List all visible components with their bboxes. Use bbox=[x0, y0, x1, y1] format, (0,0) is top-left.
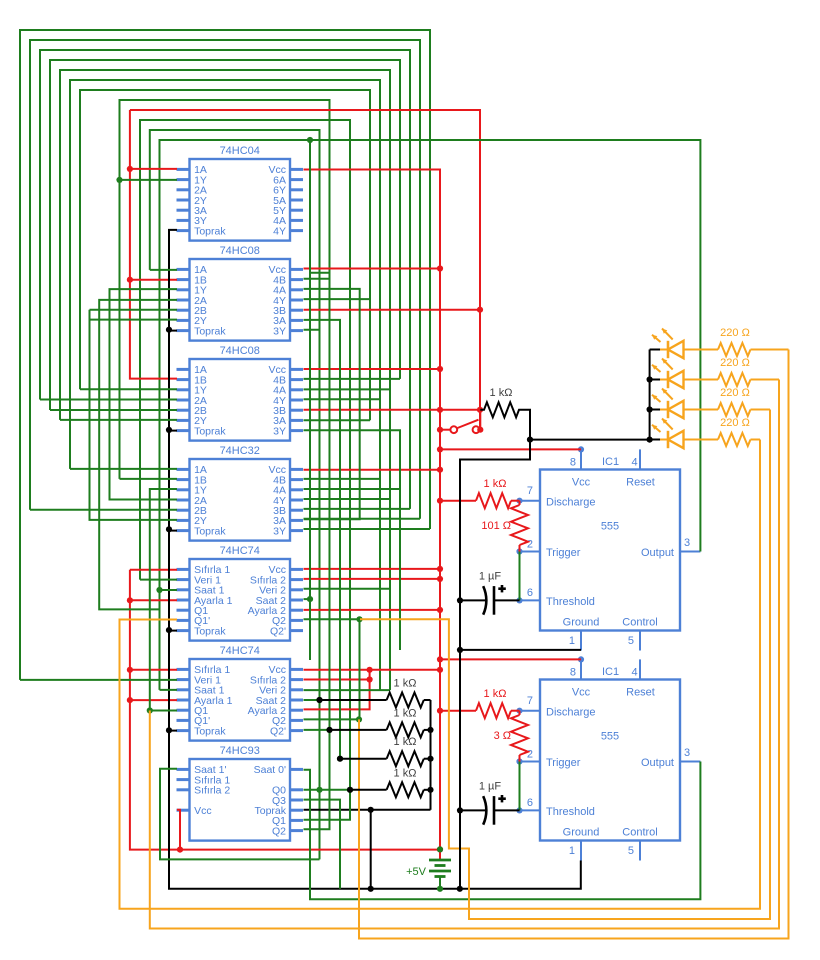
capacitor C IC2 1 uF bbox=[460, 809, 486, 811]
resistor 220 Ohm R4 bbox=[718, 433, 751, 446]
wire red 3B-08a bbox=[304, 309, 481, 311]
wire black x=460 lower bbox=[459, 600, 461, 888]
wire nest8 (y=100) bbox=[120, 100, 330, 479]
svg-text:2: 2 bbox=[527, 749, 533, 761]
wire 4B-08b row bbox=[304, 378, 401, 380]
svg-text:Vcc: Vcc bbox=[572, 687, 591, 699]
wire nest-red (y=110) switch net bbox=[130, 110, 480, 430]
svg-text:555: 555 bbox=[601, 521, 619, 533]
wire Saat1'-93 loop bbox=[160, 769, 320, 860]
svg-text:Vcc: Vcc bbox=[194, 805, 212, 817]
svg-text:74HC32: 74HC32 bbox=[220, 445, 260, 457]
svg-text:Toprak: Toprak bbox=[194, 725, 226, 737]
svg-text:Q2: Q2 bbox=[272, 825, 286, 837]
op-amp/timer IC1 555 (top) bbox=[540, 470, 680, 631]
svg-text:2: 2 bbox=[527, 539, 533, 551]
svg-text:1: 1 bbox=[569, 635, 575, 647]
wire nest2 (y=40) bbox=[30, 40, 420, 519]
wire 4A-08a to 2B-32 bbox=[304, 289, 360, 519]
svg-text:Ground: Ground bbox=[563, 617, 600, 629]
wire red 1A-74HC04 bbox=[130, 168, 177, 170]
svg-text:74HC08: 74HC08 bbox=[220, 245, 260, 257]
wire red Vcc-08b bbox=[304, 368, 441, 370]
wire red Vcc-74a bbox=[304, 568, 441, 570]
svg-text:Discharge: Discharge bbox=[546, 706, 596, 718]
wire 3A-32 row bbox=[304, 518, 421, 520]
svg-text:4Y: 4Y bbox=[273, 225, 286, 237]
svg-text:Toprak: Toprak bbox=[194, 325, 226, 337]
resistor 1 kOhm RN1 bbox=[320, 699, 387, 701]
svg-text:101 Ω: 101 Ω bbox=[481, 520, 511, 532]
wire 3A-08a to x=340 bbox=[304, 320, 341, 759]
svg-text:1 kΩ: 1 kΩ bbox=[394, 767, 417, 779]
wire 2Y-08b row bbox=[99, 419, 177, 421]
wire red Sifirla1-74b bbox=[130, 669, 177, 671]
svg-text:3Y: 3Y bbox=[273, 425, 286, 437]
svg-text:Saat 0': Saat 0' bbox=[254, 764, 286, 776]
svg-text:1 µF: 1 µF bbox=[479, 781, 502, 793]
timer IC1 555 (bottom) bbox=[540, 680, 680, 841]
wire Q1-93 row to x=350 bbox=[304, 790, 351, 820]
wire nest4 (y=60) bbox=[50, 60, 400, 410]
wire nest11 (y=140) clock net bbox=[160, 140, 701, 690]
svg-text:Control: Control bbox=[622, 827, 657, 839]
svg-text:Toprak: Toprak bbox=[194, 625, 226, 637]
wire 4A-32 row bbox=[304, 488, 401, 490]
wire Saat1-74a row bbox=[160, 589, 178, 591]
wire nest10 (y=130) bbox=[150, 130, 320, 859]
svg-text:74HC93: 74HC93 bbox=[220, 745, 260, 757]
wire green trigger-threshold IC2 bbox=[519, 762, 521, 811]
wire 1Y-08b row bbox=[80, 388, 177, 390]
wire red Vcc-08a bbox=[304, 268, 441, 270]
svg-text:74HC74: 74HC74 bbox=[220, 545, 260, 557]
wire Q2-74b row bbox=[304, 718, 360, 720]
wire red pin8 IC2 bbox=[440, 658, 581, 660]
svg-text:3Y: 3Y bbox=[273, 325, 286, 337]
wire red Ayarla2-74a bbox=[304, 609, 441, 611]
wire 1Y-04 row bbox=[120, 179, 178, 181]
resistor 1 kOhm red IC1 bbox=[476, 493, 511, 508]
wire 3Y-08a row bbox=[304, 329, 321, 331]
wire 4B-32 row bbox=[304, 478, 381, 480]
wire red Ayarla1-74a bbox=[130, 599, 177, 601]
svg-text:Trigger: Trigger bbox=[546, 547, 581, 559]
svg-text:74HC08: 74HC08 bbox=[220, 345, 260, 357]
wire 4Y-08a row bbox=[304, 298, 371, 300]
svg-text:Reset: Reset bbox=[626, 687, 655, 699]
svg-text:3: 3 bbox=[684, 537, 690, 549]
wire red Vcc-32 bbox=[304, 469, 441, 471]
wire ground stub Toprak IC4 bbox=[169, 530, 177, 532]
wire black x=370.7 drop bbox=[370, 810, 372, 889]
svg-text:5: 5 bbox=[628, 845, 634, 857]
svg-text:3: 3 bbox=[684, 747, 690, 759]
wire Veri1-74a row bbox=[140, 579, 177, 581]
wire red Vcc-74b bbox=[304, 669, 441, 671]
svg-text:Control: Control bbox=[622, 617, 657, 629]
wire nest3 (y=50) bbox=[40, 50, 410, 509]
wire ground trunk bbox=[169, 230, 581, 889]
battery +5V bbox=[439, 849, 441, 860]
wire red Ayarla1-74b bbox=[130, 699, 177, 701]
wire green trigger-threshold IC1 bbox=[519, 552, 521, 601]
IC U6 74HC74 bbox=[190, 659, 291, 741]
svg-text:1 kΩ: 1 kΩ bbox=[394, 707, 417, 719]
svg-text:Vcc: Vcc bbox=[572, 477, 591, 489]
wire orange Q1-74b to LED2 bbox=[150, 380, 779, 929]
wire x=310 lower (Saat0' loop) bbox=[304, 762, 701, 900]
svg-text:1 µF: 1 µF bbox=[479, 571, 502, 583]
IC U3 74HC08 bbox=[190, 359, 291, 441]
svg-text:IC1: IC1 bbox=[602, 666, 619, 678]
svg-text:555: 555 bbox=[601, 731, 619, 743]
LED D2 bbox=[650, 379, 660, 381]
wire black LED rail row bbox=[530, 439, 650, 441]
wire 2B-32 row bbox=[30, 509, 177, 511]
wire 2A-08b row bbox=[110, 399, 178, 401]
wire red pin8 IC1 bbox=[440, 448, 581, 450]
wire Saat2-74b row bbox=[304, 699, 320, 701]
wire red bus to switch bbox=[440, 429, 450, 431]
resistor 3 Ω red IC2 bbox=[511, 715, 528, 755]
wire Q1-74b row bbox=[150, 710, 177, 712]
svg-text:6: 6 bbox=[527, 587, 533, 599]
wire Veri1-74b row bbox=[20, 679, 177, 681]
svg-text:220 Ω: 220 Ω bbox=[720, 417, 750, 429]
IC U4 74HC32 bbox=[190, 459, 291, 541]
wire 2Y-08b row2 bbox=[60, 419, 99, 421]
wire black resistor rail x=430.5 bbox=[430, 700, 432, 810]
wire orange Q2-74a to LED3 bbox=[360, 410, 770, 920]
svg-text:Threshold: Threshold bbox=[546, 596, 595, 608]
wire 2B-08a row bbox=[90, 309, 178, 311]
wire orange Q2-74b to LED1 bbox=[359, 350, 789, 939]
svg-text:Toprak: Toprak bbox=[194, 225, 226, 237]
svg-text:4: 4 bbox=[631, 667, 637, 679]
wire Veri2-74b row bbox=[304, 689, 391, 691]
IC U2 74HC08 bbox=[190, 259, 291, 341]
wire nest6 (y=80) bbox=[70, 80, 380, 690]
svg-text:1: 1 bbox=[569, 845, 575, 857]
svg-text:1 kΩ: 1 kΩ bbox=[484, 478, 507, 490]
wire red 1B-08a bbox=[130, 279, 177, 281]
svg-text:6: 6 bbox=[527, 797, 533, 809]
wire nest1 (y=30) bbox=[20, 30, 430, 680]
wire red 3B-08b bbox=[304, 409, 481, 411]
wire nest5 (y=70) bbox=[60, 70, 390, 690]
wire red Sifirla2-74a bbox=[304, 578, 441, 580]
svg-text:3Y: 3Y bbox=[273, 525, 286, 537]
resistor 1 kOhm RN2 bbox=[330, 729, 387, 731]
svg-text:5: 5 bbox=[628, 635, 634, 647]
svg-text:Discharge: Discharge bbox=[546, 496, 596, 508]
wire ground stub Toprak IC5 bbox=[169, 630, 177, 632]
wire 2Y-08a row bbox=[90, 319, 178, 321]
wire Q0-93 row bbox=[304, 789, 351, 791]
svg-text:Sıfırla 2: Sıfırla 2 bbox=[194, 785, 230, 797]
wire 1A-08a row bbox=[150, 269, 177, 271]
svg-text:1 kΩ: 1 kΩ bbox=[484, 688, 507, 700]
wire orange LED4 tail bbox=[751, 439, 761, 441]
wire 1Y-08a to 2A-08b/2A-32 bbox=[110, 289, 178, 499]
svg-text:74HC04: 74HC04 bbox=[220, 145, 260, 157]
svg-text:1 kΩ: 1 kΩ bbox=[490, 387, 513, 399]
resistor 220 Ohm R1 bbox=[718, 343, 751, 356]
wire 4A-08b row bbox=[304, 388, 391, 390]
wire Q2'-74b row bbox=[304, 729, 330, 731]
wire x=329.5 (4B-08a from nest8) bbox=[304, 278, 330, 280]
svg-text:3 Ω: 3 Ω bbox=[494, 730, 511, 742]
svg-text:1 kΩ: 1 kΩ bbox=[394, 736, 417, 748]
wire 3Y-32 row bbox=[304, 528, 431, 530]
wire nest9 (y=120) bbox=[140, 120, 350, 790]
wire nest7 (y=90) bbox=[80, 90, 370, 420]
svg-text:Ground: Ground bbox=[563, 827, 600, 839]
resistor R5 1 kOhm (switch) bbox=[460, 402, 530, 600]
svg-text:7: 7 bbox=[527, 695, 533, 707]
wire Saat1-74b row bbox=[160, 689, 178, 691]
svg-text:Reset: Reset bbox=[626, 477, 655, 489]
wire orange Q1'-74a to LED4 bbox=[120, 440, 761, 909]
svg-text:Threshold: Threshold bbox=[546, 806, 595, 818]
wire black gnd row IC1 bbox=[460, 649, 581, 651]
wire ground stub Toprak IC3 bbox=[169, 430, 177, 432]
wire red 1k IC1 bbox=[440, 500, 476, 502]
wire ground stub Toprak IC6 bbox=[169, 730, 177, 732]
wire 3Y-08b to x=400 bbox=[304, 430, 401, 650]
wire red x=130 upper (1A04/1B08 net) bbox=[130, 110, 177, 379]
wire black LED cathode rail bbox=[649, 350, 651, 440]
svg-text:1 kΩ: 1 kΩ bbox=[394, 678, 417, 690]
wire Toprak-93 row bbox=[304, 809, 431, 811]
IC U5 74HC74 bbox=[190, 559, 291, 641]
resistor 1 kOhm red IC2 bbox=[476, 703, 511, 718]
svg-text:Trigger: Trigger bbox=[546, 757, 581, 769]
resistor 1 kOhm RN4 bbox=[350, 789, 387, 791]
capacitor C IC1 1 uF bbox=[460, 599, 486, 601]
wire orange LED1 tail bbox=[751, 349, 789, 351]
switch S1 bbox=[450, 426, 457, 433]
svg-text:74HC74: 74HC74 bbox=[220, 645, 260, 657]
IC U7 74HC93 bbox=[190, 759, 291, 841]
wire 2A-08a to x=99 bbox=[99, 300, 177, 610]
wire 3B-32 row bbox=[304, 508, 411, 510]
resistor 220 Ohm R3 bbox=[718, 403, 751, 416]
wire 2A-08b row2 bbox=[40, 399, 110, 401]
svg-text:Output: Output bbox=[641, 757, 674, 769]
wire x=310 clock branch bbox=[309, 140, 311, 660]
wire orange LED2 tail bbox=[751, 379, 780, 381]
wire orange LED3 tail bbox=[751, 409, 771, 411]
svg-text:220 Ω: 220 Ω bbox=[720, 327, 750, 339]
wire red Sifirla1-74a bbox=[130, 569, 177, 571]
svg-text:+5V: +5V bbox=[406, 866, 427, 878]
svg-text:Toprak: Toprak bbox=[194, 525, 226, 537]
wire Saat2-74a stub bbox=[304, 598, 311, 600]
svg-text:IC1: IC1 bbox=[602, 456, 619, 468]
svg-text:4: 4 bbox=[631, 457, 637, 469]
svg-text:Toprak: Toprak bbox=[194, 425, 226, 437]
resistor 220 Ohm R2 bbox=[718, 373, 751, 386]
wire +5V bus (x=440) bbox=[304, 170, 441, 850]
wire 1Y-32 to Q1-74b bbox=[150, 489, 177, 711]
LED D1 bbox=[650, 349, 660, 351]
wire 4Y-08b row bbox=[304, 398, 381, 400]
LED D4 bbox=[650, 439, 660, 441]
wire Q2-74a green bbox=[304, 618, 360, 620]
wire red Vcc-93 bbox=[177, 810, 180, 850]
wire 3A-08b row bbox=[304, 419, 371, 421]
wire red Sifirla2-74b + Ayarla2-74b loop bbox=[304, 679, 370, 681]
svg-text:Q2': Q2' bbox=[270, 725, 286, 737]
wire x=340 lower (Q3-93) bbox=[304, 800, 341, 889]
IC U1 74HC04 bbox=[190, 159, 291, 241]
wire red x=369.6 bbox=[304, 670, 370, 710]
resistor 101 Ω red IC1 bbox=[511, 505, 528, 545]
svg-text:8: 8 bbox=[570, 457, 576, 469]
wire Veri2-74a row bbox=[304, 588, 391, 590]
resistor 1 kOhm RN3 bbox=[340, 758, 387, 760]
wire 4Y-32 row bbox=[304, 498, 391, 500]
wire +5V left bus (x=130) bbox=[130, 570, 440, 850]
wire red 1k IC2 bbox=[440, 710, 476, 712]
svg-text:7: 7 bbox=[527, 485, 533, 497]
svg-text:220 Ω: 220 Ω bbox=[720, 357, 750, 369]
wire jog y=272.8 bbox=[310, 272, 330, 274]
wire 1B-32 row bbox=[120, 478, 178, 480]
wire 2B-08b row bbox=[50, 409, 177, 411]
wire 1A-32 row bbox=[70, 468, 177, 470]
svg-text:220 Ω: 220 Ω bbox=[720, 387, 750, 399]
svg-text:8: 8 bbox=[570, 667, 576, 679]
svg-text:Output: Output bbox=[641, 547, 674, 559]
wire ground stub Toprak IC2 bbox=[169, 330, 177, 332]
wire x=89.5 channel bbox=[90, 310, 178, 520]
wire Q2a drop bbox=[359, 619, 361, 719]
wire x=329.5 long bbox=[304, 273, 330, 830]
wire red switch to resistor bbox=[479, 410, 481, 430]
LED D3 bbox=[650, 409, 660, 411]
svg-text:Q2': Q2' bbox=[270, 625, 286, 637]
